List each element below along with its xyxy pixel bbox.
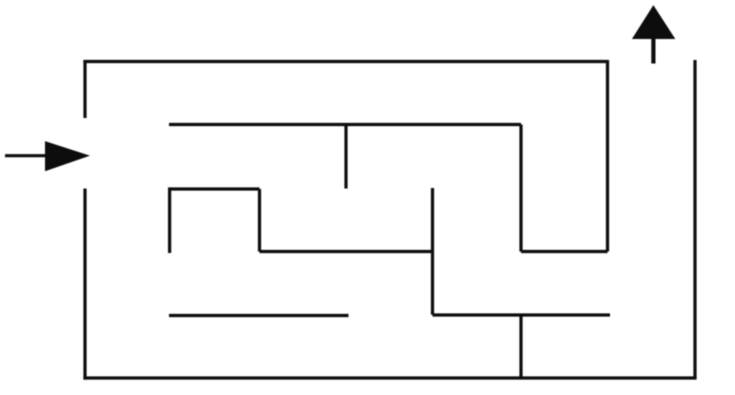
exit arrow (top right, pointing up) bbox=[633, 6, 675, 64]
wire lower horizontal right part bbox=[433, 313, 611, 316]
wire bottom wall bbox=[83, 376, 696, 379]
wire small box left vertical bbox=[168, 189, 171, 253]
wire U left vertical bbox=[519, 125, 522, 252]
wire small box top horizontal bbox=[168, 187, 260, 190]
wire inner top horizontal bbox=[169, 123, 521, 126]
wire center hanging stub bbox=[344, 125, 347, 189]
entrance arrow (left, pointing right) bbox=[5, 142, 89, 171]
wire middle horizontal right part (U bottom) bbox=[521, 250, 608, 253]
wire lower-left short horizontal bbox=[169, 314, 349, 317]
wire center long vertical bbox=[431, 188, 434, 315]
wire outer top wall bbox=[83, 60, 607, 63]
wire small box right vertical bbox=[258, 189, 261, 252]
wire exit-channel inner vertical bbox=[606, 60, 609, 252]
wire left wall lower segment bbox=[83, 189, 86, 380]
wire left wall upper segment bbox=[83, 60, 86, 118]
wire middle horizontal left part bbox=[260, 250, 433, 253]
wire right outer wall bbox=[693, 60, 696, 378]
wire lower right vertical to bottom wall bbox=[519, 315, 522, 378]
